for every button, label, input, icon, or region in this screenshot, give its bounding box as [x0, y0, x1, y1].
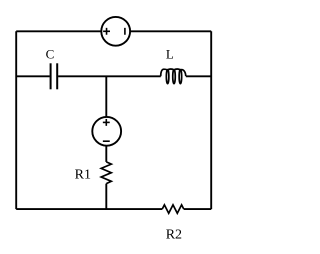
wire: middle rail left segment to capacitor: [16, 75, 50, 77]
wire: bottom rail left segment: [16, 208, 162, 210]
V2 minus sign: [103, 140, 110, 142]
svg-text:R1: R1: [75, 168, 91, 183]
wire: left vertical rail: [15, 31, 17, 209]
resistor R1 (vertical zigzag): [101, 162, 111, 184]
wire: right vertical rail: [210, 31, 212, 209]
voltage source V2 (middle, circle): [92, 117, 121, 146]
inductor L (coil): [161, 69, 186, 84]
resistor R2 (horizontal zigzag): [162, 205, 184, 213]
svg-text:R2: R2: [166, 228, 182, 243]
wire: top-left to source V1: [16, 30, 101, 32]
wire: capacitor to inductor (through middle junction): [58, 75, 161, 77]
V2 plus sign: [103, 119, 110, 126]
wire: V2 to resistor R1: [105, 146, 107, 162]
wire: inductor to right rail: [186, 75, 211, 77]
node: middle junction to V2 branch: [105, 76, 107, 117]
wire: R2 to bottom-right corner: [184, 208, 211, 210]
V1 plus sign: [103, 28, 110, 35]
V1 minus sign (rotated, vertical bar): [124, 28, 126, 35]
svg-text:C: C: [46, 47, 55, 62]
voltage source V1 (top, circle): [101, 17, 130, 46]
capacitor C: [51, 63, 58, 89]
wire: R1 to bottom rail: [105, 184, 107, 210]
svg-text:L: L: [166, 47, 174, 62]
wire: source V1 to top-right corner: [131, 30, 212, 32]
